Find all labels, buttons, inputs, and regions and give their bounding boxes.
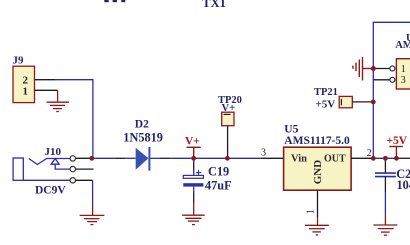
- connector J10 (DC barrel jack): [13, 146, 75, 197]
- junction node earth/pin1: [371, 66, 376, 71]
- power port +5V: [387, 135, 408, 158]
- ground at U5: [305, 217, 329, 235]
- junction node +5V port: [394, 156, 399, 161]
- svg-text:C19: C19: [208, 165, 229, 179]
- svg-text:AMS1117-5.0: AMS1117-5.0: [284, 135, 350, 147]
- svg-text:3: 3: [261, 147, 266, 158]
- capacitor C20 104: [375, 158, 410, 214]
- power port V+: [185, 136, 201, 159]
- junction node input rail: [89, 156, 94, 161]
- junction node V+: [191, 156, 196, 161]
- pin 1 of U5: [317, 190, 319, 217]
- regulator U5 AMS1117-5.0: [284, 124, 352, 191]
- wire input rail to D2: [92, 157, 115, 159]
- svg-text:1: 1: [23, 86, 29, 98]
- svg-text:U5: U5: [284, 124, 298, 136]
- diode D2 1N5819: [123, 118, 163, 170]
- pin cathode D2: [160, 157, 170, 159]
- pin 1 of J9: [35, 89, 58, 91]
- connector J9: [13, 55, 35, 103]
- svg-text:V+: V+: [185, 136, 200, 148]
- pin anode D2: [114, 157, 125, 159]
- svg-text:D2: D2: [135, 118, 149, 130]
- svg-text:3: 3: [401, 75, 406, 86]
- connector U? (clipped at right edge): [390, 33, 410, 89]
- wire J10 pin3 to ground: [76, 179, 93, 181]
- wire U? pin 3 to vertical net: [373, 79, 390, 81]
- svg-text:J10: J10: [45, 146, 62, 158]
- svg-text:TX1: TX1: [202, 0, 226, 10]
- wire +5V output rail: [373, 157, 396, 159]
- svg-text:2: 2: [367, 148, 372, 159]
- svg-text:47uF: 47uF: [205, 179, 232, 193]
- capacitor C19 47uF: [183, 158, 231, 203]
- test point TP20: [218, 95, 242, 158]
- pin 2 of U5: [351, 157, 373, 159]
- svg-text:J9: J9: [13, 55, 25, 67]
- ground at C19: [182, 203, 205, 224]
- junction node OUT/vertical: [371, 156, 376, 161]
- pin 2 of J9: [35, 79, 56, 81]
- wire J10 pin2 stub: [76, 168, 94, 170]
- wire continuing off right edge: [396, 157, 410, 159]
- svg-text:DC9V: DC9V: [35, 185, 66, 197]
- svg-text:GND: GND: [312, 160, 324, 185]
- pin 3 of U5: [261, 157, 284, 159]
- wire vertical net to top-right: [373, 22, 410, 158]
- junction node TP21: [371, 100, 376, 105]
- svg-text:+5V: +5V: [316, 99, 336, 111]
- ground at C20: [373, 214, 397, 235]
- wire J10 pin1 to junction: [76, 157, 92, 159]
- svg-text:TP21: TP21: [314, 87, 338, 98]
- svg-text:+5V: +5V: [387, 135, 408, 147]
- wire J9 pin2 to input rail: [56, 80, 93, 159]
- wire D2 to V+ node: [170, 157, 261, 159]
- ground at J9 pin1: [47, 90, 70, 111]
- test point TP21: [314, 87, 373, 111]
- wire dot to U? pin 1: [373, 68, 390, 70]
- svg-text:1N5819: 1N5819: [123, 131, 163, 145]
- earth ground (rotated) top-right: [353, 57, 373, 80]
- svg-text:AM: AM: [395, 40, 410, 51]
- svg-text:1: 1: [401, 64, 406, 75]
- partial text remnant top-left: [104, 0, 125, 2]
- ground at J10: [80, 204, 105, 225]
- svg-text:Vin: Vin: [291, 153, 307, 164]
- junction node C20: [383, 156, 388, 161]
- svg-text:104: 104: [397, 178, 410, 192]
- junction node TP20: [225, 156, 230, 161]
- svg-text:1: 1: [305, 209, 316, 214]
- svg-text:OUT: OUT: [324, 153, 346, 164]
